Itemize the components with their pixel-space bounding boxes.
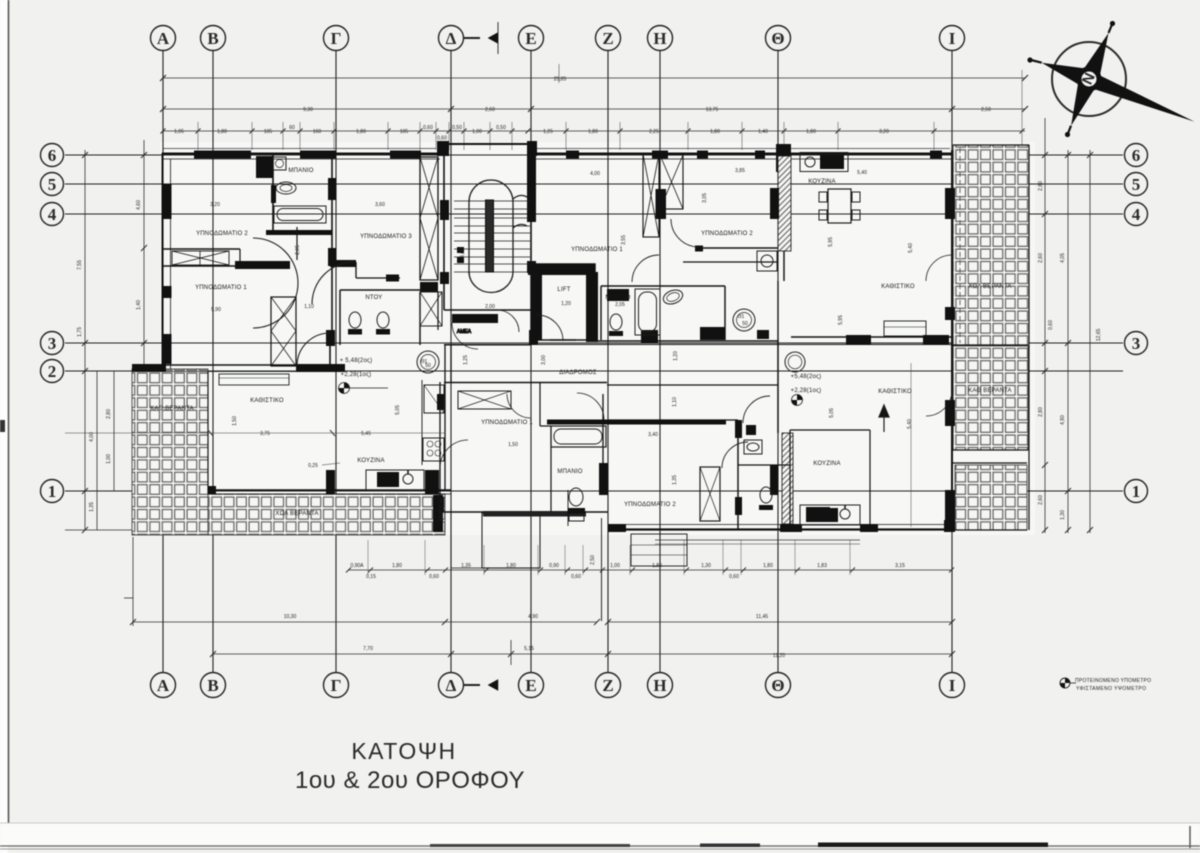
svg-text:ΧΩΛ ΒΕΡΑΝΤΑ: ΧΩΛ ΒΕΡΑΝΤΑ [968,284,1011,290]
svg-text:4,00: 4,00 [590,171,600,177]
svg-text:+5,48(2ος): +5,48(2ος) [791,374,822,380]
svg-text:1,30: 1,30 [701,563,711,569]
door arc lower-left room [440,440,468,468]
right veranda paving upper [953,145,1029,346]
axis bubble Delta top [439,26,464,51]
svg-text:ΥΠΝΟΔΩΜΑΤΙΟ 3: ΥΠΝΟΔΩΜΑΤΙΟ 3 [360,234,412,240]
svg-text:2,60: 2,60 [1038,253,1044,263]
door arc hall-bed2 [253,283,298,328]
svg-text:2,50: 2,50 [981,107,991,113]
flue duct black block at Theta top [776,144,791,172]
svg-text:+2,28(1ος): +2,28(1ος) [341,372,372,378]
living south wall [208,489,451,491]
svg-text:5,95: 5,95 [828,237,834,247]
svg-text:6: 6 [48,146,57,165]
svg-text:0,50: 0,50 [496,125,506,131]
axis bubble 3 right [1125,332,1148,355]
svg-text:Ε: Ε [525,676,536,695]
svg-text:2,25: 2,25 [649,129,659,135]
svg-text:1,80: 1,80 [588,129,598,135]
grid column Z [607,51,609,672]
grid column I [951,51,953,672]
svg-text:5,05: 5,05 [395,405,401,415]
bottom dim row 3 : 7,70 / 5,15 / 11,20 [213,653,952,655]
svg-text:Α: Α [157,676,170,695]
axis bubble A bottom [151,673,176,698]
svg-text:ΚΟΥΖΙΝΑ: ΚΟΥΖΙΝΑ [808,179,835,185]
lower rooms west wall [439,382,441,512]
bath middle west wall [600,286,602,340]
svg-text:0,60: 0,60 [437,136,447,142]
toilet top-left [276,182,296,194]
sink top-left [273,157,286,170]
grid column Delta [450,51,452,672]
staircase treads [454,201,530,272]
grid column E [530,51,532,672]
grid column H [659,51,661,672]
axis bubble 5 left [41,173,64,196]
door arc corridor E [537,315,563,341]
level mark upper-left living [339,383,389,394]
bathtub top-left bath [274,206,326,223]
grid row 4 [65,213,1123,215]
svg-text:ΠΡΟΤΕΙΝΟΜΕΝΟ ΥΠΟΜΕΤΡΟ: ΠΡΟΤΕΙΝΟΜΕΝΟ ΥΠΟΜΕΤΡΟ [1075,678,1151,684]
svg-text:105: 105 [400,129,409,135]
svg-text:1,00: 1,00 [610,563,620,569]
svg-text:3,15: 3,15 [895,563,905,569]
door arc hall-living [297,333,330,366]
north compass circle [1052,42,1126,116]
svg-text:1,80: 1,80 [763,563,773,569]
window sill line lower right [655,539,860,541]
door arc corridor to bath [577,393,604,420]
black pier kitchen south [433,495,443,532]
svg-text:3,75: 3,75 [260,431,270,437]
black appliance lower right [820,508,838,522]
svg-text:1: 1 [1132,482,1141,501]
bed3 door recess walls [330,260,356,267]
door arc veranda right upper [926,255,952,281]
stair west wall [443,144,445,310]
svg-text:1,80: 1,80 [356,129,366,135]
svg-text:7,70: 7,70 [363,646,373,652]
right apt lower: kitchen west wall [777,340,779,433]
bed2 upper south wall [695,247,778,249]
svg-text:3,85: 3,85 [735,168,745,174]
wc lower walls [738,464,790,466]
north compass star blade NE [1085,33,1109,79]
svg-text:1,20: 1,20 [561,301,571,307]
wardrobe bed2 lower [700,467,720,521]
boiler circle left living [417,351,439,373]
svg-text:Δ: Δ [446,29,457,48]
bath lower walls [550,426,552,512]
svg-text:ΚΑΘΙΣΤΙΚΟ: ΚΑΘΙΣΤΙΚΟ [881,284,915,290]
grid column A [162,51,164,672]
bottom dim row 2 : 10,30 / 4,90 / 11,45 [133,621,597,623]
lower left bottom wall [440,511,608,513]
svg-text:4,00: 4,00 [89,432,95,442]
svg-text:5: 5 [1132,175,1141,194]
svg-text:ΥΠΝΟΔΩΜΑΤΙΟ 2: ΥΠΝΟΔΩΜΑΤΙΟ 2 [624,502,676,508]
svg-text:2,60: 2,60 [1038,495,1044,505]
svg-text:1,25: 1,25 [543,129,553,135]
top window sill line [163,148,436,150]
svg-text:Δ: Δ [446,676,457,695]
hall closet X tall [271,297,296,366]
svg-text:50: 50 [425,363,431,369]
entry door arc [497,310,519,332]
left vertical dim line [84,150,86,530]
svg-text:5,45: 5,45 [361,431,371,437]
svg-text:25,85: 25,85 [554,77,567,83]
svg-text:1,80: 1,80 [392,563,402,569]
axis bubble Z top [596,26,621,51]
svg-text:ΚΑΘΙΣΤΙΚΟ: ΚΑΘΙΣΤΙΚΟ [878,389,912,395]
svg-text:1: 1 [48,482,57,501]
svg-text:2,80: 2,80 [1038,181,1044,191]
kitchen left: counter with stove and sink [366,470,424,490]
kitchen/living divider [329,345,331,365]
bed2 lower room walls [608,419,738,421]
svg-text:50: 50 [742,321,748,327]
svg-text:11,20: 11,20 [773,653,785,659]
svg-text:1,35: 1,35 [672,475,678,485]
bed1 north wall black stub [235,261,290,269]
svg-text:1,00: 1,00 [106,454,112,464]
door arc hall-bed3 [312,262,354,304]
svg-text:ΥΠΝΟΔΩΜΑΤΙΟ 1: ΥΠΝΟΔΩΜΑΤΙΟ 1 [481,420,533,426]
boiler circle right apt [785,352,805,372]
door arc bed1 upper [632,255,659,282]
north compass star blade S [1071,79,1094,126]
porch rect below left [482,513,540,568]
svg-text:2: 2 [48,362,57,381]
right veranda paving lower [955,465,1027,530]
door arc hall-bath [253,238,298,283]
right apt divider wall y337 [791,336,952,338]
svg-text:12,65: 12,65 [1096,329,1102,342]
axis bubble Gamma bottom [324,673,349,698]
bath west wall [272,155,274,232]
svg-text:0,50: 0,50 [452,125,462,131]
wc shower room [349,312,361,328]
svg-text:1,10: 1,10 [672,397,678,407]
svg-text:ΥΠΝΟΔΩΜΑΤΙΟ 2: ΥΠΝΟΔΩΜΑΤΙΟ 2 [701,231,753,237]
theta wall lower part [777,281,779,340]
kitchen lower right counter [800,505,860,525]
bottom white band [0,823,1200,845]
grid row 1 [65,490,1123,492]
top wall black pier segments [194,151,251,159]
stair lower handrail arc [469,271,513,293]
axis bubble H bottom [648,673,673,698]
svg-text:ΚΑΘΙΣΤΙΚΟ: ΚΑΘΙΣΤΙΚΟ [250,398,284,404]
svg-text:+2,28(1ος): +2,28(1ος) [791,388,822,394]
svg-text:1,40: 1,40 [136,300,142,310]
svg-text:4,90: 4,90 [528,614,538,620]
kitchen top right: counter [800,153,848,172]
svg-text:Θ1: Θ1 [738,314,745,320]
svg-text:Ι: Ι [949,676,956,695]
svg-text:3,20: 3,20 [879,129,889,135]
grid row 6 [65,154,1123,156]
svg-text:ΚΟΥΖΙΝΑ: ΚΟΥΖΙΝΑ [357,458,384,464]
axis bubble 6 right [1125,144,1148,167]
axis bubble I top [940,26,965,51]
svg-text:ΥΠΝΟΔΩΜΑΤΙΟ 1: ΥΠΝΟΔΩΜΑΤΙΟ 1 [195,285,247,291]
right veranda paving middle [953,346,1028,450]
grid row 2 [65,370,1123,372]
axis bubble Gamma top [324,26,349,51]
svg-text:3,05: 3,05 [702,193,708,203]
west wall black pier 1 [162,184,172,219]
svg-text:ΥΠΝΟΔΩΜΑΤΙΟ 2: ΥΠΝΟΔΩΜΑΤΙΟ 2 [196,231,248,237]
wall under closet [420,282,438,292]
right vertical dim lines [1044,118,1046,533]
bottom rule [0,845,1200,847]
bath east wall [331,155,333,341]
axis bubble Delta bottom [439,673,464,698]
svg-text:Ζ: Ζ [602,676,613,695]
svg-text:Η: Η [653,29,666,48]
svg-text:5: 5 [48,175,57,194]
entry wall below stair [444,309,531,311]
top outer wall right apts [531,153,953,155]
svg-text:Γ: Γ [331,676,342,695]
bed1/bed2 divider wall [163,248,240,250]
axis bubble B top [201,26,226,51]
corridor north wall right [595,340,778,342]
bottom right corner vertical [1189,826,1191,848]
svg-text:4: 4 [1132,205,1141,224]
svg-text:5,40: 5,40 [908,243,914,253]
door arc lower wc [743,396,770,423]
svg-text:5,95: 5,95 [838,315,844,325]
axis bubble Theta bottom [766,673,791,698]
svg-text:ΚΟΥΖΙΝΑ: ΚΟΥΖΙΝΑ [813,461,840,467]
svg-text:Ι: Ι [949,29,956,48]
svg-text:Β: Β [207,676,218,695]
svg-text:2,80: 2,80 [1038,407,1044,417]
svg-text:6: 6 [1132,146,1141,165]
svg-text:4,60: 4,60 [460,248,466,258]
axis bubble I bottom [940,673,965,698]
black pier between bath and bed2 lower [599,463,608,495]
lower bottom outer wall [608,528,952,530]
section mark bottom [464,680,498,691]
svg-text:3,60: 3,60 [375,202,385,208]
bath middle east wall [724,286,726,340]
entry wall x451 lower [450,345,452,382]
svg-text:60: 60 [289,125,295,131]
axis bubble B bottom [201,673,226,698]
corridor door arc at E [507,394,531,418]
svg-text:0,60: 0,60 [423,125,433,131]
svg-text:1,50: 1,50 [232,416,238,426]
living west boundary to veranda [207,371,209,494]
svg-text:0,60: 0,60 [1048,320,1054,330]
svg-text:5,40: 5,40 [907,419,913,429]
building footprint white [160,142,1035,535]
bidet shower room [377,312,389,328]
svg-text:3: 3 [1132,334,1141,353]
svg-text:1,75: 1,75 [77,327,83,337]
top wall piers right part [566,151,579,159]
wide wardrobe X lower-left [458,391,511,409]
entrance side line [601,518,603,621]
svg-text:0,90: 0,90 [549,563,559,569]
east outer wall [951,150,953,530]
svg-text:1,25: 1,25 [463,355,469,365]
bathtub lower bath [551,426,606,447]
svg-text:3: 3 [48,334,57,353]
svg-text:0,15: 0,15 [366,574,376,580]
svg-text:5,15: 5,15 [524,646,534,652]
grid row 3 [65,342,1123,344]
lift shaft walls [531,264,595,340]
grid column Theta [777,51,779,672]
svg-text:0,60: 0,60 [571,574,581,580]
veranda wall stubs right [953,344,1028,346]
axis bubble 4 right [1125,203,1148,226]
axis bubble 2 left [41,360,64,383]
sofa left living [219,374,289,385]
shower room walls [339,290,341,345]
black appliance block bath1 [256,156,273,178]
svg-text:1,80: 1,80 [806,129,816,135]
svg-text:0,60: 0,60 [729,574,739,580]
svg-text:Β: Β [207,29,218,48]
bottom veranda paving [208,494,445,535]
level mark right apt [792,395,803,406]
svg-text:4,05: 4,05 [1060,253,1066,263]
bottom small dims row [348,569,952,571]
svg-text:3,55: 3,55 [621,235,627,245]
door arc veranda right lower [926,390,952,416]
svg-text:Γ: Γ [331,29,342,48]
section mark top [464,22,498,54]
svg-text:ΑΜΕΑ: ΑΜΕΑ [457,329,472,335]
svg-text:3,00: 3,00 [541,355,547,365]
west wall black pier 2 [162,286,172,298]
overall dim line 25,85 [163,77,1025,79]
svg-text:1,50: 1,50 [508,442,518,448]
svg-text:1,80: 1,80 [217,129,227,135]
door arc lower bed2 [722,442,748,468]
west wall black pier 3 [162,334,172,364]
svg-text:ΥΠΝΟΔΩΜΑΤΙΟ 1: ΥΠΝΟΔΩΜΑΤΙΟ 1 [571,247,623,253]
svg-text:10,30: 10,30 [284,614,297,620]
handrail hooks to wall [513,195,527,199]
left border line [8,0,10,841]
svg-text:ΔΙΑΔΡΟΜΟΣ: ΔΙΑΔΡΟΜΟΣ [559,370,597,376]
svg-text:ΚΑΤΟΨΗ: ΚΑΤΟΨΗ [351,738,456,764]
dim line row3: small partial dims [163,130,1025,132]
entrance arrow right veranda [879,405,889,432]
svg-text:ΜΠΑΝΙΟ: ΜΠΑΝΙΟ [605,295,630,301]
svg-text:Ε: Ε [525,29,536,48]
bed2 upper closet right cell [660,155,683,209]
extension verticals from dims to wall [198,70,1022,150]
compass centre disc [1079,69,1099,89]
hall walls left apt [239,249,241,266]
top outer wall stair block [440,143,531,145]
svg-text:ΚΑΘ.ΒΕΡΑΝΤΑ: ΚΑΘ.ΒΕΡΑΝΤΑ [150,406,194,412]
basin wc lower [744,440,762,454]
compass spike lines [1029,60,1042,63]
north compass star blade W [1042,63,1089,85]
svg-text:1,40: 1,40 [758,129,768,135]
svg-text:1,00: 1,00 [472,129,482,135]
north compass star blade E long [1089,76,1195,122]
svg-text:ΝΤΟΥ΢: ΝΤΟΥ΢ [365,295,382,301]
svg-text:ΧΩΛ ΒΕΡΑΝΤΑ: ΧΩΛ ΒΕΡΑΝΤΑ [275,511,318,517]
svg-text:11,45: 11,45 [756,614,768,620]
svg-text:9,30: 9,30 [303,107,313,113]
svg-text:Θ: Θ [771,676,784,695]
grid column Gamma [335,51,337,672]
left veranda paving [132,369,208,535]
svg-text:ΑΝΑΤ.5,%: ΑΝΑΤ.5,% [439,498,445,521]
bath south wall thick [266,230,332,235]
lift door [550,339,576,341]
svg-text:ΥΦΙΣΤΑΜΕΝΟ ΥΨΟΜΕΤΡΟ: ΥΦΙΣΤΑΜΕΝΟ ΥΨΟΜΕΤΡΟ [1076,686,1146,692]
svg-text:ΜΠΑΝΙΟ: ΜΠΑΝΙΟ [288,168,313,174]
svg-text:2,05: 2,05 [295,245,301,255]
boiler circle middle [733,309,755,331]
corridor spine wall [444,344,531,346]
kitchen lower east wall [869,430,871,530]
closet column at Delta [420,157,438,280]
door arc bed2 upper [671,219,699,247]
svg-text:7,55: 7,55 [77,260,83,270]
svg-text:+ 5,48(2ος): + 5,48(2ος) [340,358,373,364]
veranda inner dashed edge [959,148,961,343]
axis bubble H top [648,26,673,51]
kitchen east wall [444,345,446,490]
svg-text:2,60: 2,60 [485,107,495,113]
svg-text:ΜΠΑΝΙΟ: ΜΠΑΝΙΟ [557,469,582,475]
svg-text:Η: Η [653,676,666,695]
svg-text:1,83: 1,83 [817,563,827,569]
stair east wall [530,144,532,264]
toilet wc lower [760,487,772,503]
kitchen units boxes [423,438,444,461]
bed2 lower north wall black [547,420,726,425]
svg-text:0,25: 0,25 [308,463,318,469]
svg-text:2,05: 2,05 [615,302,625,308]
svg-text:Ζ: Ζ [602,29,613,48]
grid row 5 [65,183,1123,185]
bath middle: bathtub vertical [635,289,660,335]
svg-text:1,80: 1,80 [710,129,720,135]
bath middle north wall [601,285,725,287]
axis bubble Theta top [766,26,791,51]
axis bubble 1 right [1125,480,1148,503]
svg-text:4,90: 4,90 [1060,415,1066,425]
short extension lines below plan [368,540,850,575]
stair newel black bar [486,200,494,272]
dim line row2: 9,30 / 2,60 / 13,75 / 2,50 [163,108,1025,110]
steps below bed2 lower [631,534,687,566]
bottom rule upper [0,822,1200,824]
svg-text:4: 4 [48,205,57,224]
svg-text:13,75: 13,75 [706,107,719,113]
svg-text:3,20: 3,20 [210,202,220,208]
axis bubble E top [519,26,544,51]
legend bottom right [1060,678,1151,692]
